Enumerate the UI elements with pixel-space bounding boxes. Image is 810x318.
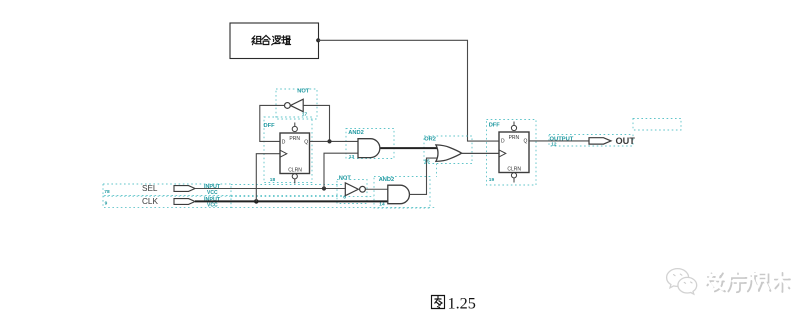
svg-text:OUTPUT: OUTPUT	[550, 137, 574, 143]
svg-text:SEL: SEL	[142, 184, 158, 193]
sel box: floating right	[633, 119, 681, 131]
svg-text:AND2: AND2	[379, 177, 395, 183]
wire: AND2a output to OR2 top input (thick)	[380, 147, 439, 149]
watermark logo (two chat bubbles)	[667, 269, 697, 294]
output pin OUT symbol	[589, 138, 611, 144]
wire: DFF1 Q to NOT1 input riser	[303, 105, 329, 141]
wire: OR2 output to DFF2 clock	[462, 152, 499, 154]
svg-text:NOT: NOT	[339, 176, 352, 182]
svg-text:78: 78	[104, 189, 110, 195]
组	[252, 36, 255, 45]
node: CLK junction	[254, 199, 259, 204]
svg-text:VCC: VCC	[207, 203, 218, 209]
svg-text:PRN: PRN	[509, 135, 520, 141]
sel box: AND2a	[346, 129, 394, 159]
svg-text:13: 13	[349, 154, 355, 160]
svg-text:CLK: CLK	[142, 197, 158, 206]
combinational logic box U_COMB (组合逻辑)	[230, 23, 319, 59]
svg-text:NOT: NOT	[297, 88, 310, 94]
svg-text:14: 14	[379, 201, 385, 207]
组合逻辑 text (drawn strokes)	[252, 35, 291, 45]
sel box: input pin CLK	[103, 196, 231, 207]
prn stub	[294, 123, 296, 127]
svg-text:15: 15	[424, 159, 430, 165]
图 glyph	[432, 296, 445, 309]
svg-text:9: 9	[105, 200, 108, 206]
dashed selection boxes (teal)	[103, 89, 681, 208]
sel box: OUTPUT net	[549, 135, 633, 147]
sel box: NOT2	[337, 180, 367, 204]
svg-text:DFF: DFF	[489, 122, 501, 128]
node: SEL junction	[322, 186, 326, 190]
sel box: AND2b	[374, 177, 430, 209]
svg-text:17: 17	[302, 111, 308, 117]
svg-text:OR2: OR2	[424, 137, 436, 143]
svg-text:1.25: 1.25	[448, 295, 476, 313]
wire: NOT1 output to DFF1 D	[260, 105, 285, 141]
sel box: OR2	[424, 136, 472, 164]
svg-text:19: 19	[489, 177, 495, 183]
wire: SEL to NOT2	[195, 188, 345, 190]
node: Q feedback junction	[327, 139, 331, 143]
sel box: DFF1	[264, 117, 312, 183]
wire: CLK to AND2b (thick)	[195, 200, 388, 202]
caption 图1.25	[432, 296, 445, 309]
svg-text:Q: Q	[524, 139, 528, 145]
svg-text:D: D	[501, 139, 505, 145]
svg-text:D: D	[282, 140, 286, 146]
clock triangle	[280, 150, 287, 157]
sel box: NOT1	[276, 89, 317, 119]
net dashes along SEL wire	[231, 185, 343, 196]
sel box: DFF2	[487, 120, 537, 186]
net dashes along CLK wire	[231, 197, 436, 208]
svg-text:12: 12	[551, 142, 557, 148]
svg-text:VCC: VCC	[207, 190, 218, 196]
wire: DFF1 Q to AND2a top input	[310, 140, 359, 142]
watermark text 数字积木 (white layer)	[706, 271, 789, 290]
wire: SEL riser to AND2a lower input	[324, 153, 358, 188]
wire: box output to top-right corner	[318, 40, 499, 141]
wire: NOT2 output to AND2b top input	[365, 188, 387, 190]
dashes between OR2 and AND2b	[436, 164, 438, 178]
辑	[282, 36, 286, 43]
合	[262, 35, 270, 44]
svg-text:CLRN: CLRN	[507, 167, 521, 173]
wire: DFF2 Q to output pin	[529, 140, 589, 142]
watermark text 数字积木 (shadow layer)	[707, 273, 790, 292]
clrn stub	[292, 174, 297, 179]
svg-text:Q: Q	[304, 140, 308, 146]
svg-text:18: 18	[270, 177, 276, 183]
svg-text:OUT: OUT	[616, 136, 636, 146]
svg-text:AND2: AND2	[348, 130, 364, 136]
sel box: input pin SEL	[103, 184, 231, 195]
svg-text:CLRN: CLRN	[288, 168, 302, 174]
svg-text:DFF: DFF	[264, 123, 276, 129]
wire: CLK riser to DFF1 clock	[256, 154, 280, 202]
svg-text:PRN: PRN	[289, 136, 300, 142]
node: box output junction dot	[316, 38, 320, 42]
wire: AND2b output to OR2 bottom input	[409, 158, 439, 194]
逻	[272, 36, 280, 45]
